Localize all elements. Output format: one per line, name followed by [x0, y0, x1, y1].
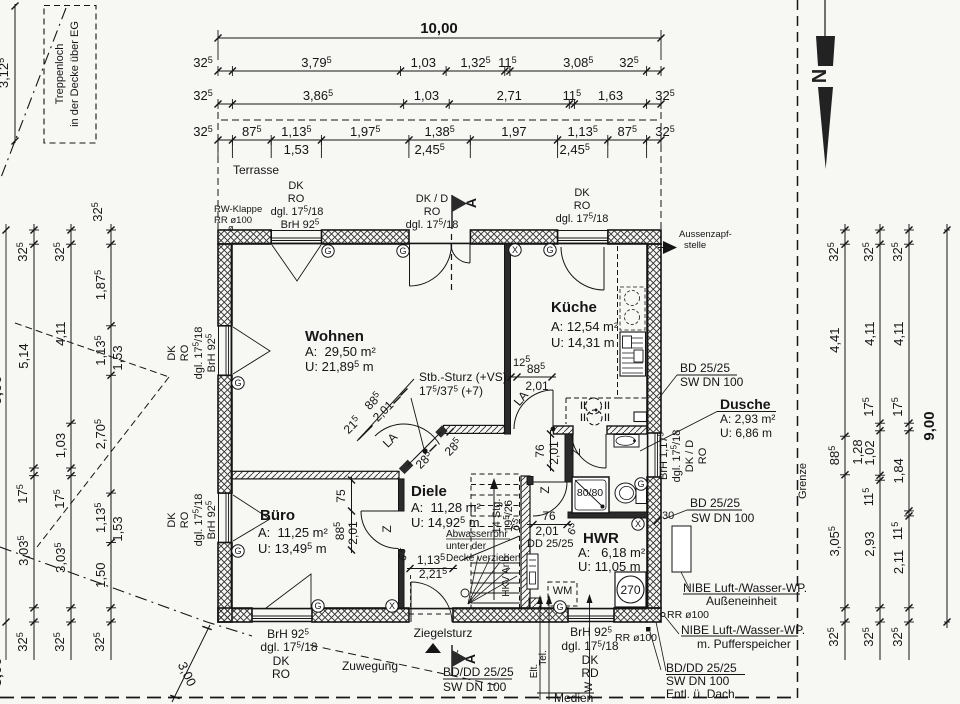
dimension row3 — [215, 124, 665, 145]
svg-text:3,00: 3,00 — [0, 657, 5, 686]
svg-text:RO: RO — [179, 511, 191, 528]
svg-text:175/375 (+7): 175/375 (+7) — [419, 384, 483, 398]
symbol circle G at 641,484 — [635, 478, 647, 490]
svg-text:Grenze: Grenze — [797, 463, 809, 499]
interior wall Kueche/Dusche piece B — [607, 426, 647, 434]
kueche terrace door swing — [561, 247, 604, 290]
exterior wall bottom, pier left of rear door — [312, 608, 409, 622]
svg-text:DK: DK — [574, 187, 590, 199]
svg-text:BD 25/25: BD 25/25 — [690, 496, 740, 510]
svg-text:BrH 925: BrH 925 — [205, 500, 219, 539]
angled door lintel lines — [408, 432, 441, 465]
angled wall stub lower (28.5) — [402, 463, 411, 472]
svg-text:2,01: 2,01 — [346, 521, 360, 545]
symbol circle G at 560,607 — [554, 601, 566, 613]
svg-text:5,14: 5,14 — [16, 343, 31, 368]
svg-text:Diele: Diele — [411, 483, 447, 500]
inner face line bottom — [232, 608, 647, 610]
svg-text:DK: DK — [166, 345, 178, 361]
right dimension chain 2 — [862, 224, 885, 660]
interior wall Dusche west — [565, 434, 573, 482]
svg-text:4,11: 4,11 — [862, 321, 877, 345]
shower tray 80/80 — [572, 477, 609, 513]
svg-text:A: 6,18 m²: A: 6,18 m² — [578, 545, 646, 560]
svg-text:2,11: 2,11 — [891, 550, 906, 574]
wc — [615, 483, 647, 504]
interior wall stair side — [521, 476, 530, 608]
symbol circle X at 638,524 — [632, 518, 644, 530]
svg-text:U: 6,86 m: U: 6,86 m — [720, 426, 772, 440]
lintel marker triangle — [425, 643, 441, 653]
svg-text:U: 14,31 m: U: 14,31 m — [551, 335, 615, 350]
svg-text:Abwasserrohr: Abwasserrohr — [446, 529, 508, 540]
kitchen counter dashed — [618, 246, 647, 398]
svg-text:Büro: Büro — [260, 507, 295, 524]
svg-text:BrH 1,175: BrH 1,175 — [657, 432, 671, 480]
svg-text:RD: RD — [581, 666, 599, 680]
svg-text:RR ø100: RR ø100 — [667, 609, 709, 621]
interior wall Buero north — [232, 471, 399, 479]
svg-text:A: 29,50 m²: A: 29,50 m² — [305, 344, 376, 359]
interior wall Wohnen/Kueche divider — [505, 244, 511, 434]
entrance door centre dashed line — [451, 234, 453, 293]
svg-text:A: A — [462, 654, 478, 664]
window/french-door Kueche north — [558, 230, 608, 244]
exterior wall left, upper pier — [218, 244, 232, 326]
svg-text:Aussenzapf-: Aussenzapf- — [679, 229, 732, 240]
dash-dot line top-left — [0, 8, 66, 180]
dim angled door — [340, 379, 414, 441]
casement triangle Buero west window — [233, 495, 270, 541]
exterior wall bottom, left corner pier — [218, 608, 252, 622]
svg-text:1,03: 1,03 — [53, 433, 68, 458]
label BD/DD bottom — [443, 650, 514, 694]
treppenloch dashed box — [44, 6, 96, 144]
svg-text:X: X — [389, 601, 395, 611]
dashed wedge line A — [15, 323, 169, 377]
exterior wall left, middle pier — [218, 375, 232, 493]
svg-text:1,84: 1,84 — [891, 458, 906, 483]
svg-text:RO: RO — [574, 200, 591, 212]
buero door swing — [361, 511, 399, 549]
stairs 14 Stg with up arrow — [462, 474, 520, 608]
svg-text:270: 270 — [620, 583, 640, 597]
NIBE box — [672, 526, 691, 572]
symbol circle G at 328,251 — [322, 245, 334, 257]
svg-text:DK: DK — [582, 653, 599, 667]
dash-dot boundary to corner — [0, 547, 252, 636]
interior wall Dusche/HWR divider — [568, 512, 647, 518]
svg-text:dgl. 175/18: dgl. 175/18 — [271, 205, 324, 219]
casement triangle Wohnen west window — [233, 327, 270, 374]
interior wall Buero east lower — [399, 550, 405, 609]
dimension row3 sub-dims — [218, 140, 647, 158]
svg-text:Stb.-Sturz (+VS): Stb.-Sturz (+VS) — [419, 370, 507, 384]
svg-text:Wohnen: Wohnen — [305, 328, 364, 345]
symbol circle G at 238,551 — [232, 545, 244, 557]
svg-text:RO: RO — [697, 447, 709, 464]
symbol circle G at 403,251 — [397, 245, 409, 257]
svg-text:Außeneinheit: Außeneinheit — [706, 594, 777, 608]
svg-text:SW DN 100: SW DN 100 — [691, 511, 755, 525]
svg-text:1,03: 1,03 — [414, 88, 439, 103]
inner face line right — [647, 244, 649, 608]
dusche door swing — [572, 434, 606, 468]
svg-text:G: G — [399, 246, 406, 256]
svg-text:U: 13,495 m: U: 13,495 m — [258, 541, 327, 556]
svg-text:U: 21,895 m: U: 21,895 m — [305, 359, 374, 374]
symbol circle G at 318,606 — [312, 600, 324, 612]
inner face line top — [232, 242, 647, 244]
svg-text:N: N — [809, 69, 831, 83]
svg-text:G: G — [234, 546, 241, 556]
svg-text:dgl. 175/18: dgl. 175/18 — [561, 639, 618, 653]
exterior wall left, lower pier — [218, 543, 232, 623]
exterior wall top, pier middle-right — [470, 230, 557, 244]
svg-text:2,71: 2,71 — [497, 88, 522, 103]
svg-text:A: A — [463, 198, 479, 208]
svg-text:G: G — [546, 245, 553, 255]
svg-text:X: X — [512, 245, 518, 255]
svg-text:Entl. ü. Dach: Entl. ü. Dach — [666, 687, 735, 701]
svg-text:dgl. 175/18: dgl. 175/18 — [556, 212, 609, 226]
svg-text:A: 2,93 m²: A: 2,93 m² — [720, 412, 775, 426]
svg-text:4,11: 4,11 — [891, 321, 906, 345]
svg-text:BD/DD 25/25: BD/DD 25/25 — [443, 665, 514, 679]
svg-text:G: G — [556, 602, 563, 612]
angled wall stub upper (21.5) — [438, 428, 445, 435]
svg-text:in der Decke über EG: in der Decke über EG — [69, 21, 81, 127]
kueche room door swing — [514, 390, 555, 431]
svg-text:U: 14,925 m: U: 14,925 m — [411, 515, 480, 530]
heat pump 270 — [615, 572, 646, 607]
svg-text:1,50: 1,50 — [93, 563, 108, 588]
terrace dashed outline — [218, 112, 661, 230]
exterior wall top, pier left corner — [218, 230, 271, 244]
svg-text:1,97: 1,97 — [501, 124, 526, 139]
svg-text:Tel.: Tel. — [538, 650, 549, 666]
dim 3,12.5 top-left — [0, 3, 19, 145]
interior wall Kueche/Dusche piece A — [554, 426, 574, 434]
svg-text:Treppenloch: Treppenloch — [54, 44, 66, 105]
hwr door swing — [533, 482, 567, 516]
svg-text:9,00: 9,00 — [0, 375, 5, 404]
dim dusche door vertical — [533, 430, 561, 472]
svg-text:G: G — [637, 479, 644, 489]
svg-text:dgl. 175/18: dgl. 175/18 — [260, 640, 317, 654]
window Wohnen west — [218, 326, 232, 376]
svg-text:9,00: 9,00 — [921, 411, 938, 440]
svg-text:BD 25/25: BD 25/25 — [680, 361, 730, 375]
svg-text:76: 76 — [542, 509, 556, 523]
Grenze dashed line — [797, 0, 799, 704]
exterior wall bottom, right corner pier — [614, 608, 661, 622]
inner face line left — [230, 244, 232, 608]
svg-text:2,01: 2,01 — [547, 441, 561, 465]
svg-text:A: 12,54 m²: A: 12,54 m² — [551, 319, 619, 334]
svg-text:DK: DK — [166, 512, 178, 528]
right overall 9,00 — [921, 224, 951, 628]
interior wall stair cap — [527, 477, 533, 485]
svg-text:unter der: unter der — [446, 541, 487, 552]
svg-text:dgl. 175/18: dgl. 175/18 — [406, 218, 459, 232]
svg-text:2,01: 2,01 — [535, 524, 559, 538]
svg-text:RO: RO — [288, 193, 305, 205]
window HWR south — [568, 608, 614, 622]
right dimension chain 3 — [891, 224, 914, 660]
svg-text:BrH 925: BrH 925 — [205, 333, 219, 372]
svg-text:Terrasse: Terrasse — [233, 163, 279, 177]
exterior wall right, upper pier — [647, 244, 661, 433]
right chains top extension — [845, 229, 947, 231]
dim kueche door — [508, 354, 557, 393]
dim hwr door — [507, 509, 582, 538]
window Buero west — [218, 493, 232, 542]
symbol circle G at 238,383 — [232, 377, 244, 389]
rear door threshold dashed — [409, 613, 453, 615]
svg-text:80/80: 80/80 — [577, 487, 603, 499]
svg-text:Z: Z — [538, 486, 552, 493]
svg-text:30: 30 — [662, 510, 674, 522]
window Dusche east — [647, 433, 661, 477]
svg-text:dgl. 175/18: dgl. 175/18 — [192, 494, 206, 547]
svg-text:BrH 925: BrH 925 — [267, 627, 309, 641]
svg-text:ø: ø — [228, 223, 234, 233]
supply lines with arrows — [537, 594, 593, 700]
svg-text:stelle: stelle — [684, 240, 706, 251]
left dimension chain 3 — [93, 224, 116, 660]
svg-text:SW DN 100: SW DN 100 — [680, 375, 744, 389]
dim 3,00 diagonal — [170, 625, 211, 702]
svg-text:RO: RO — [424, 206, 441, 218]
kitchen sink+hob counter — [566, 398, 647, 425]
casement triangle Wohnen north window — [272, 245, 321, 281]
svg-text:BD/DD 25/25: BD/DD 25/25 — [666, 661, 737, 675]
section flag A bottom — [452, 645, 478, 676]
svg-text:Ziegelsturz: Ziegelsturz — [414, 626, 473, 640]
svg-text:G: G — [324, 246, 331, 256]
svg-text:BrH 925: BrH 925 — [570, 625, 612, 639]
dashed wedge line B — [37, 377, 169, 547]
svg-text:10,00: 10,00 — [420, 20, 458, 37]
dim buero door vertical — [332, 477, 360, 554]
casement triangle Buero south window — [266, 574, 311, 608]
svg-text:75: 75 — [334, 489, 348, 503]
svg-text:1,63: 1,63 — [598, 88, 623, 103]
svg-text:G: G — [234, 378, 241, 388]
svg-text:dgl. 175/18: dgl. 175/18 — [192, 327, 206, 380]
svg-text:4,11: 4,11 — [53, 321, 68, 345]
svg-text:m. Pufferspeicher: m. Pufferspeicher — [697, 637, 791, 651]
svg-text:1,53: 1,53 — [110, 345, 125, 370]
dimension row2 — [215, 88, 665, 109]
symbol circle G at 550,250 — [544, 244, 556, 256]
svg-text:2,93: 2,93 — [862, 531, 877, 556]
svg-text:76: 76 — [533, 444, 547, 458]
svg-text:Z: Z — [569, 448, 583, 455]
svg-text:1,53: 1,53 — [110, 516, 125, 541]
svg-text:WM: WM — [553, 585, 573, 597]
hwr tank — [527, 554, 538, 589]
symbol circle X at 515,250 — [509, 244, 521, 256]
svg-text:Zuwegung: Zuwegung — [342, 659, 398, 673]
svg-text:DK / D: DK / D — [416, 193, 448, 205]
window Wohnen north — [271, 230, 321, 244]
exterior wall bottom, pier right of rear door — [453, 608, 568, 622]
angled door swing (LA) — [375, 424, 440, 454]
dimension row1 — [215, 55, 665, 76]
interior wall Buero east upper — [399, 479, 405, 511]
svg-text:DK: DK — [273, 654, 290, 668]
left dimension chain 2 — [53, 224, 76, 660]
kitchen appliance dashed circles — [620, 287, 645, 330]
svg-text:Z: Z — [380, 525, 394, 532]
interior wall Diele north lintel Stb.-Sturz — [444, 425, 505, 433]
svg-text:RW-Klappe: RW-Klappe — [214, 204, 262, 215]
svg-text:A: 11,25 m²: A: 11,25 m² — [258, 525, 329, 540]
section flag A top — [452, 195, 479, 229]
svg-text:DD 25/25: DD 25/25 — [527, 538, 573, 550]
window Buero south — [252, 608, 312, 622]
svg-text:4,41: 4,41 — [827, 328, 842, 353]
svg-text:X: X — [635, 519, 641, 529]
svg-text:DK: DK — [288, 180, 304, 192]
svg-text:HKV Anb.: HKV Anb. — [501, 553, 512, 596]
exterior wall right, lower pier — [647, 477, 661, 608]
svg-text:2,01: 2,01 — [525, 379, 549, 393]
kitchen tall unit/fridge — [620, 332, 646, 376]
north arrow — [809, 0, 835, 169]
svg-text:1,53: 1,53 — [284, 142, 309, 157]
svg-text:dgl. 175/18: dgl. 175/18 — [670, 430, 684, 483]
exterior wall top, pier right corner — [608, 230, 661, 244]
svg-text:1,28: 1,28 — [850, 439, 865, 464]
symbol circle X at 392,606 — [386, 600, 398, 612]
bottom boundary dashed — [0, 697, 797, 699]
abwasser circle — [461, 589, 469, 597]
entrance double door right leaf — [451, 244, 470, 263]
svg-text:RO: RO — [179, 344, 191, 361]
zuwegung dashed path — [310, 645, 500, 686]
right dimension chain 1 — [827, 224, 850, 660]
svg-text:SW DN 100: SW DN 100 — [666, 674, 730, 688]
svg-text:SW DN 100: SW DN 100 — [443, 680, 507, 694]
washing machine WM — [548, 582, 577, 606]
svg-text:DK / D: DK / D — [684, 440, 696, 472]
svg-text:Küche: Küche — [551, 299, 597, 316]
svg-text:BrH 925: BrH 925 — [281, 218, 320, 232]
dimension overall 10,00 — [215, 20, 665, 60]
entrance double door left leaf — [410, 244, 452, 286]
left dimension chain 1 — [16, 224, 39, 660]
exterior wall top, pier middle-left — [322, 230, 410, 244]
svg-text:NIBE Luft-/Wasser-WP.: NIBE Luft-/Wasser-WP. — [681, 623, 805, 637]
svg-text:NIBE Luft-/Wasser-WP.: NIBE Luft-/Wasser-WP. — [683, 581, 807, 595]
washbasin dusche — [614, 435, 639, 448]
svg-text:G: G — [314, 601, 321, 611]
svg-text:Dusche: Dusche — [720, 396, 771, 412]
left overall chain (clipped) — [0, 224, 10, 687]
svg-text:1,03: 1,03 — [411, 55, 436, 70]
rear entrance door swing — [411, 575, 453, 622]
hwr hatched block — [529, 598, 541, 608]
svg-text:RO: RO — [272, 667, 290, 681]
dim rear door — [394, 546, 457, 581]
